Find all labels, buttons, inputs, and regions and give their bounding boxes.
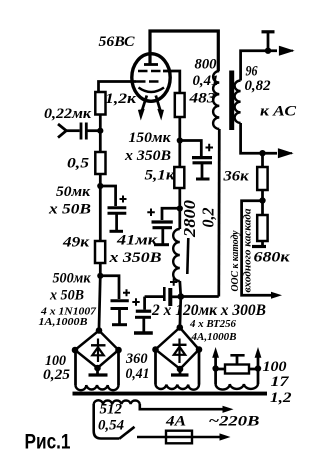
speaker terminal top — [262, 32, 275, 54]
svg-text:36к: 36к — [222, 169, 249, 185]
wire node A down — [99, 131, 102, 152]
svg-text:х 350В: х 350В — [108, 250, 161, 266]
svg-text:50мк: 50мк — [56, 184, 91, 200]
tube control grid (dashed) — [136, 80, 162, 82]
capacitor C4 150mk x 350V — [180, 141, 213, 180]
tube anode plate — [144, 63, 158, 66]
wire R5 to node E — [178, 188, 181, 209]
feedback wire OOC — [242, 201, 271, 295]
arrow speaker bottom — [279, 150, 292, 157]
tube screen grid (dashed) — [138, 70, 164, 72]
resistor R4 483 screen — [175, 93, 185, 117]
capacitor C6 120mk (right of pair) — [145, 278, 181, 306]
wire C1 to node A — [86, 129, 100, 132]
mains switch SA1 — [119, 427, 134, 439]
node E junction — [177, 205, 183, 211]
fuse FU1 4A — [166, 431, 192, 444]
arrow mains top — [223, 406, 234, 413]
node H junction — [259, 197, 265, 203]
svg-text:х 50В: х 50В — [48, 202, 91, 218]
common rail (chassis bus) — [73, 392, 268, 396]
wire node G to R6 — [261, 153, 264, 167]
svg-text:х 50В: х 50В — [49, 288, 84, 304]
node F junction B+ — [178, 293, 185, 300]
node G junction on speaker bottom — [259, 150, 265, 156]
arrow mains bottom — [220, 433, 231, 440]
transformer winding III (HV secondary legs) — [156, 352, 200, 390]
wire R1 to node A — [99, 115, 102, 132]
svg-text:2800: 2800 — [180, 200, 199, 238]
wire R3 to node C — [99, 263, 102, 276]
svg-text:800: 800 — [195, 57, 217, 73]
svg-text:49к: 49к — [62, 235, 90, 251]
svg-text:х 350В: х 350В — [124, 148, 171, 164]
wire node C to bridge VD1 — [99, 276, 100, 328]
diode bridge VD2 — [152, 324, 202, 372]
resistor R1 1,2k — [95, 92, 105, 115]
transformer winding I (mains 512/0,54) — [94, 400, 226, 438]
svg-text:56ВС: 56ВС — [99, 34, 135, 50]
resistor R7 terminal bar — [252, 241, 266, 247]
capacitor C7 120mk (left of pair) — [132, 297, 153, 333]
wire node H to R7 — [261, 201, 264, 216]
svg-text:0,82: 0,82 — [245, 78, 271, 94]
svg-text:0,22мк: 0,22мк — [44, 106, 92, 122]
wire mains bottom to fuse — [137, 436, 223, 439]
svg-text:4 х ВТ256: 4 х ВТ256 — [189, 319, 236, 330]
svg-text:4 х 1N1007: 4 х 1N1007 — [40, 307, 97, 318]
wire node B down — [99, 186, 102, 241]
wire anode top — [150, 31, 218, 71]
bridge VD1 minus terminal — [89, 368, 108, 375]
output transformer T2 core — [229, 71, 234, 131]
svg-text:0,41: 0,41 — [193, 73, 219, 89]
svg-text:Рис.1: Рис.1 — [25, 431, 71, 454]
wire node D to R5 — [178, 141, 181, 168]
svg-text:512: 512 — [100, 402, 123, 418]
node B junction — [97, 183, 103, 189]
tube heater leads with arrows — [138, 96, 164, 121]
capacitor C2 50mk x 50V — [108, 196, 127, 232]
potentiometer R hum balance — [225, 355, 249, 373]
transformer winding IV (filament) with arrows — [212, 347, 261, 390]
resistor R7 680k — [257, 215, 267, 241]
svg-text:входного каскада: входного каскада — [243, 209, 254, 293]
wire node F to bridge VD2 — [180, 297, 181, 329]
arrow feedback — [271, 292, 282, 299]
svg-text:2 х 120мк х 300В: 2 х 120мк х 300В — [151, 302, 266, 319]
arrow speaker top — [280, 47, 293, 54]
svg-text:360: 360 — [125, 351, 148, 367]
capacitor C3 500mk x 50V — [111, 289, 131, 324]
wire R2 to node B — [99, 174, 102, 186]
svg-text:0,54: 0,54 — [98, 418, 124, 434]
svg-text:4А,1000В: 4А,1000В — [190, 332, 236, 343]
svg-text:5,1к: 5,1к — [145, 168, 176, 184]
wire input to C1 — [66, 129, 80, 132]
resistor R5 5,1k — [174, 167, 184, 188]
node A junction — [97, 128, 103, 134]
svg-text:150мк: 150мк — [129, 130, 172, 146]
svg-text:1А,1000В: 1А,1000В — [39, 317, 88, 328]
transformer winding II (360/0,41 bridge1 side legs) — [76, 352, 119, 390]
choke L1 2800/0,2 — [173, 209, 188, 297]
vacuum tube V1 56BC envelope — [132, 54, 170, 102]
svg-text:41мк: 41мк — [116, 233, 158, 249]
svg-text:~220В: ~220В — [209, 414, 260, 430]
tube cathode arc — [139, 88, 165, 93]
svg-text:0,25: 0,25 — [43, 367, 70, 383]
node C junction — [97, 273, 103, 279]
capacitor C5 41mk x 350V — [147, 208, 180, 245]
screen grid wire to R4 — [163, 71, 180, 93]
wire node C to C3 — [100, 276, 119, 299]
svg-text:1,2: 1,2 — [270, 390, 292, 406]
diode bridge VD1 — [72, 327, 122, 371]
input terminal chevron — [58, 124, 66, 138]
bridge VD2 minus terminal — [171, 369, 189, 375]
svg-text:500мк: 500мк — [53, 271, 92, 287]
wire grid to input network — [99, 82, 137, 93]
svg-text:0,41: 0,41 — [126, 366, 150, 382]
output transformer T2 primary winding — [181, 71, 220, 297]
resistor R3 49k — [95, 241, 105, 263]
wire node B to C2 — [100, 186, 115, 206]
wire R4 to node D — [178, 117, 181, 141]
resistor R2 0,5 — [95, 152, 105, 174]
svg-text:680к: 680к — [254, 250, 291, 266]
svg-text:1,2к: 1,2к — [105, 91, 137, 107]
node D junction — [177, 137, 183, 143]
svg-text:0,2: 0,2 — [199, 208, 218, 228]
svg-text:ООС к катоду: ООС к катоду — [230, 230, 241, 292]
capacitor C1 0,22mk — [80, 123, 83, 140]
svg-text:к АС: к АС — [260, 104, 297, 120]
svg-text:0,5: 0,5 — [67, 156, 89, 172]
svg-text:483: 483 — [188, 91, 215, 107]
svg-text:100: 100 — [263, 359, 287, 375]
resistor R6 36k — [257, 167, 267, 190]
svg-text:4А: 4А — [165, 414, 186, 430]
output transformer T2 secondary winding — [235, 51, 277, 154]
wire R6 to node H — [261, 190, 264, 201]
svg-text:17: 17 — [271, 374, 290, 390]
